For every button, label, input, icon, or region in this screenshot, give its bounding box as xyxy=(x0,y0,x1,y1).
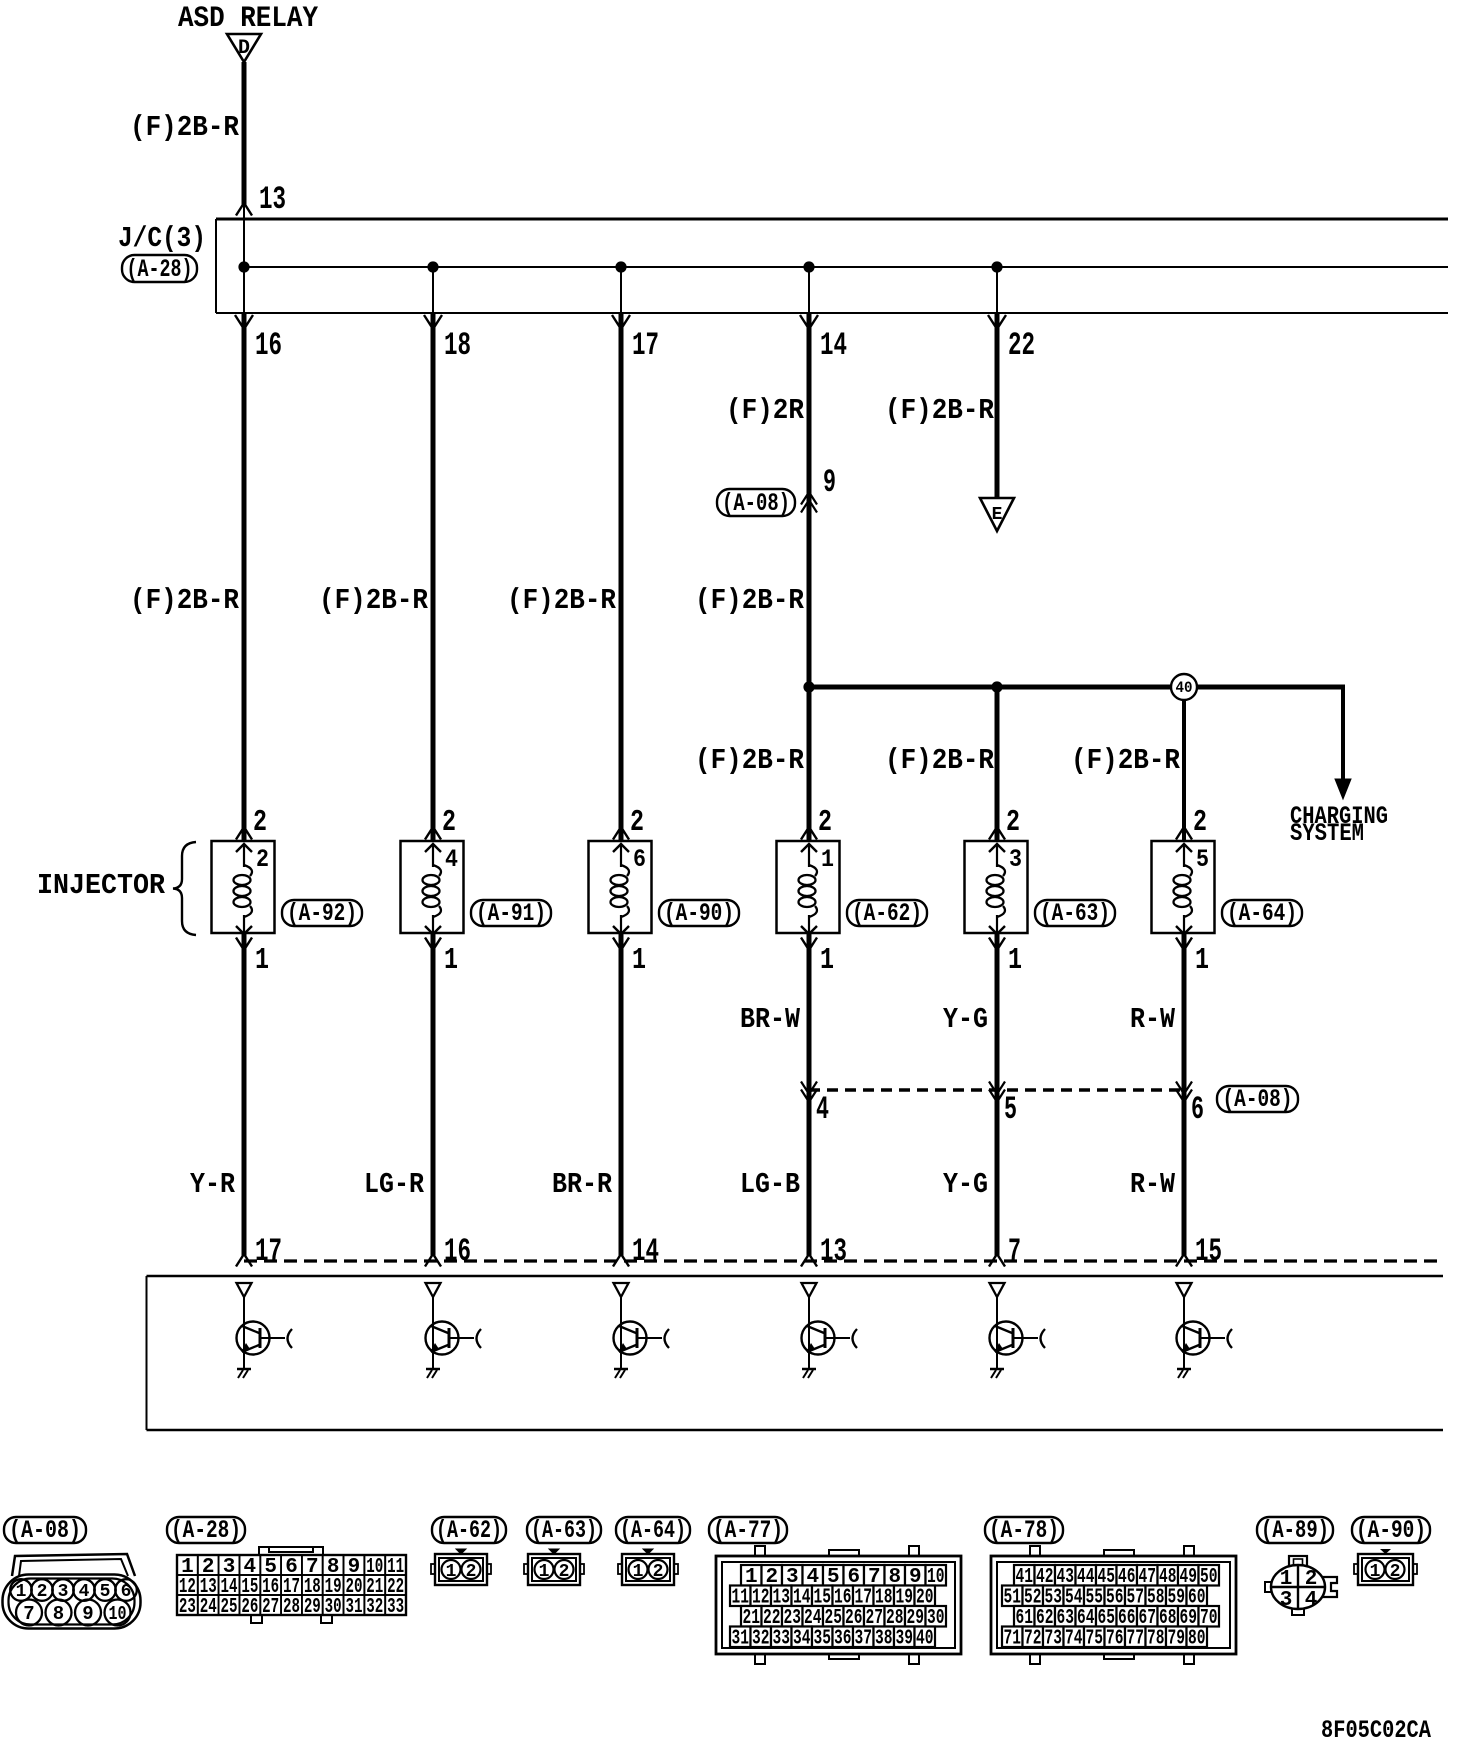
svg-text:75: 75 xyxy=(1086,1628,1104,1651)
ECU pin 15 arrow xyxy=(1176,1254,1192,1267)
injector 6 label (A-64) xyxy=(1222,900,1302,926)
in-line connector A-08 dashed line xyxy=(809,1088,1184,1091)
svg-text:2: 2 xyxy=(559,1562,570,1582)
ECU connector dashed boundary xyxy=(244,1259,1443,1262)
injector 4 pin 1 arrow xyxy=(801,938,817,951)
wire inside J/C xyxy=(620,267,622,313)
connector A-08 face view xyxy=(12,1554,135,1576)
J/C output arrow pin 18 xyxy=(424,315,442,329)
svg-text:2: 2 xyxy=(466,1562,477,1582)
svg-text:(A-64): (A-64) xyxy=(620,1516,686,1545)
wire below injector 5 xyxy=(995,933,1000,1256)
svg-text:73: 73 xyxy=(1045,1628,1063,1651)
connector A-89 face view xyxy=(1289,1556,1307,1567)
svg-text:80: 80 xyxy=(1188,1628,1206,1651)
svg-text:INJECTOR: INJECTOR xyxy=(37,869,166,902)
wire inside J/C xyxy=(243,267,245,313)
wire below injector 4 xyxy=(807,933,812,1256)
injector 3 label (A-90) xyxy=(659,900,739,926)
injector 5 coil xyxy=(996,844,998,867)
svg-text:(A-90): (A-90) xyxy=(1356,1516,1426,1545)
svg-text:(A-28): (A-28) xyxy=(171,1516,241,1545)
svg-text:SYSTEM: SYSTEM xyxy=(1290,819,1364,848)
svg-text:2: 2 xyxy=(1305,1568,1318,1591)
connector A-63 face view xyxy=(549,1549,559,1554)
driver transistor Q4 xyxy=(808,1297,810,1369)
svg-text:BR-W: BR-W xyxy=(740,1003,801,1036)
svg-text:ASD RELAY: ASD RELAY xyxy=(178,2,318,36)
svg-text:(A-77): (A-77) xyxy=(713,1516,783,1545)
svg-text:72: 72 xyxy=(1024,1628,1042,1651)
svg-text:2: 2 xyxy=(1193,805,1207,840)
driver transistor Q1 xyxy=(243,1297,245,1369)
connector A-64 face view xyxy=(643,1549,653,1554)
wire down to injector A-64 xyxy=(1182,700,1186,840)
in-line connector circle 40 xyxy=(1171,674,1197,700)
svg-text:33: 33 xyxy=(387,1596,404,1619)
injector 4 body (A-62) xyxy=(777,841,840,933)
branch bus to charging system xyxy=(809,685,1345,690)
svg-text:(F)2B-R: (F)2B-R xyxy=(695,744,805,777)
J/C node dot 4 xyxy=(803,261,814,272)
A-08 pin 9 xyxy=(75,1600,101,1626)
svg-text:8F05C02CA: 8F05C02CA xyxy=(1321,1716,1431,1740)
ground triangle E xyxy=(980,498,1014,531)
connector label A-90 xyxy=(1352,1517,1430,1543)
J/C output arrow pin 17 xyxy=(612,315,630,329)
svg-text:25: 25 xyxy=(221,1596,238,1619)
injector 2 coil xyxy=(432,844,434,867)
svg-text:4: 4 xyxy=(1305,1589,1318,1612)
svg-text:(F)2B-R: (F)2B-R xyxy=(130,111,240,144)
transistor 2 ground xyxy=(426,1368,440,1371)
svg-text:2: 2 xyxy=(1390,1562,1401,1582)
svg-text:7: 7 xyxy=(23,1603,34,1625)
svg-text:(A-64): (A-64) xyxy=(1227,899,1297,928)
svg-text:14: 14 xyxy=(632,1233,659,1270)
svg-text:(F)2B-R: (F)2B-R xyxy=(130,584,240,617)
connector A-90 face view xyxy=(1380,1549,1391,1554)
svg-text:(F)2B-R: (F)2B-R xyxy=(1071,744,1181,777)
svg-text:R-W: R-W xyxy=(1130,1003,1176,1036)
svg-text:Y-R: Y-R xyxy=(190,1168,236,1201)
svg-text:Y-G: Y-G xyxy=(943,1168,988,1201)
connector label A-63 xyxy=(527,1517,601,1543)
transistor 4 ground xyxy=(802,1368,816,1371)
svg-text:32: 32 xyxy=(366,1596,383,1619)
wire inside J/C xyxy=(996,267,998,313)
svg-text:37: 37 xyxy=(855,1628,873,1651)
connector label A-08 xyxy=(4,1517,86,1543)
transistor 3 ground xyxy=(614,1368,628,1371)
svg-text:1: 1 xyxy=(821,845,834,874)
svg-text:(F)2B-R: (F)2B-R xyxy=(885,744,995,777)
junction dot at wire 14 xyxy=(803,681,814,692)
J/C output arrow pin 16 xyxy=(235,315,253,329)
ECU internal pin triangle 5 xyxy=(990,1283,1005,1297)
wire 18 (F)2B-R xyxy=(431,314,436,840)
svg-text:J/C(3): J/C(3) xyxy=(118,222,206,255)
connector A-62 face view xyxy=(456,1549,466,1554)
A-08 pin 8 xyxy=(46,1600,72,1626)
svg-text:2: 2 xyxy=(653,1562,664,1582)
svg-text:(A-78): (A-78) xyxy=(989,1516,1059,1545)
A-08 pin 1 xyxy=(10,1579,32,1601)
injector 4 label (A-62) xyxy=(847,900,927,926)
svg-text:27: 27 xyxy=(262,1596,279,1619)
svg-text:14: 14 xyxy=(820,327,847,364)
connector A-78 face view xyxy=(991,1556,1236,1654)
A-08 pass pin 6 xyxy=(1176,1082,1192,1095)
J/C node dot 2 xyxy=(427,261,438,272)
svg-text:15: 15 xyxy=(1195,1233,1222,1270)
A-08 pin 6 xyxy=(115,1579,137,1601)
A-08 pass pin 4 xyxy=(801,1082,817,1095)
ECU pin 14 arrow xyxy=(613,1254,629,1267)
injector 6 body (A-64) xyxy=(1152,841,1215,933)
wire 17 (F)2B-R xyxy=(619,314,624,840)
svg-text:(A-63): (A-63) xyxy=(1040,899,1110,928)
svg-text:7: 7 xyxy=(1008,1233,1021,1270)
svg-text:71: 71 xyxy=(1004,1628,1022,1651)
svg-text:8: 8 xyxy=(53,1603,64,1625)
A-08 pin 4 xyxy=(73,1579,95,1601)
A-08 pass pin 5 xyxy=(989,1082,1005,1095)
svg-text:LG-B: LG-B xyxy=(740,1168,800,1201)
ECU internal pin triangle 6 xyxy=(1177,1283,1192,1297)
svg-text:74: 74 xyxy=(1065,1628,1083,1651)
svg-text:9: 9 xyxy=(823,464,836,501)
connector A-08 label xyxy=(1217,1086,1298,1112)
injector 5 body (A-63) xyxy=(965,841,1028,933)
injector 4 coil xyxy=(808,844,810,867)
svg-text:(F)2B-R: (F)2B-R xyxy=(319,584,429,617)
svg-text:29: 29 xyxy=(304,1596,321,1619)
svg-text:9: 9 xyxy=(82,1603,93,1625)
injector 5 pin 1 arrow xyxy=(989,938,1005,951)
brace xyxy=(173,842,196,935)
svg-text:38: 38 xyxy=(875,1628,893,1651)
svg-text:(F)2B-R: (F)2B-R xyxy=(885,394,995,427)
svg-text:24: 24 xyxy=(200,1596,217,1619)
svg-text:1: 1 xyxy=(444,943,458,978)
svg-text:16: 16 xyxy=(444,1233,471,1270)
svg-text:(A-63): (A-63) xyxy=(531,1516,597,1545)
junction dot branch 2 xyxy=(991,681,1002,692)
svg-text:1: 1 xyxy=(255,943,269,978)
connector A-08 pass-through pin 9 xyxy=(717,489,795,516)
J/C internal bus xyxy=(244,266,1448,268)
ECU pin 16 arrow xyxy=(425,1254,441,1267)
svg-text:6: 6 xyxy=(633,845,646,874)
connector A-28 face view xyxy=(259,1547,323,1556)
injector 1 pin 1 arrow xyxy=(236,938,252,951)
svg-text:1: 1 xyxy=(539,1562,550,1582)
wire 16 (F)2B-R xyxy=(242,314,247,840)
connector label A-77 xyxy=(709,1517,787,1543)
transistor 5 ground xyxy=(990,1368,1004,1371)
svg-text:(A-89): (A-89) xyxy=(1261,1516,1329,1545)
transistor 6 ground xyxy=(1177,1368,1191,1371)
wire 14 (F)2R xyxy=(807,314,812,840)
wire below injector 2 xyxy=(431,933,436,1256)
transistor 1 ground xyxy=(237,1368,251,1371)
svg-text:1: 1 xyxy=(1280,1568,1293,1591)
svg-text:28: 28 xyxy=(283,1596,300,1619)
injector 3 body (A-90) xyxy=(589,841,652,933)
A-08 pin 5 xyxy=(94,1579,116,1601)
injector 1 label (A-92) xyxy=(282,900,362,926)
svg-text:23: 23 xyxy=(179,1596,196,1619)
connector A-77 face view xyxy=(716,1556,961,1654)
J/C output arrow pin 14 xyxy=(800,315,818,329)
svg-text:(A-28): (A-28) xyxy=(127,255,193,284)
connector label A-78 xyxy=(985,1517,1063,1543)
svg-text:(F)2R: (F)2R xyxy=(726,394,805,427)
A-08 pin 10 xyxy=(105,1600,131,1626)
wire below injector 1 xyxy=(242,933,247,1256)
svg-text:5: 5 xyxy=(1004,1091,1017,1128)
svg-text:32: 32 xyxy=(752,1628,770,1651)
svg-text:(A-91): (A-91) xyxy=(476,899,546,928)
connector label A-89 xyxy=(1257,1517,1333,1543)
svg-text:77: 77 xyxy=(1127,1628,1145,1651)
relay terminal triangle D xyxy=(227,34,261,62)
J/C node dot 1 xyxy=(238,261,249,272)
svg-text:31: 31 xyxy=(345,1596,362,1619)
svg-text:(F)2B-R: (F)2B-R xyxy=(507,584,617,617)
ECU pin 7 arrow xyxy=(989,1254,1005,1267)
injector 3 pin 1 arrow xyxy=(613,938,629,951)
arrow into J/C xyxy=(236,203,252,216)
svg-text:3: 3 xyxy=(1009,845,1022,874)
svg-text:(A-92): (A-92) xyxy=(287,899,357,928)
svg-text:(F)2B-R: (F)2B-R xyxy=(695,584,805,617)
svg-text:35: 35 xyxy=(814,1628,832,1651)
driver transistor Q3 xyxy=(620,1297,622,1369)
connector label A-62 xyxy=(432,1517,506,1543)
svg-text:79: 79 xyxy=(1168,1628,1186,1651)
svg-text:1: 1 xyxy=(632,943,646,978)
wire 22 (F)2B-R xyxy=(995,314,1000,498)
ECU internal pin triangle 1 xyxy=(237,1283,252,1297)
svg-text:22: 22 xyxy=(1008,327,1035,364)
svg-text:1: 1 xyxy=(446,1562,457,1582)
svg-text:Y-G: Y-G xyxy=(943,1003,988,1036)
wire down to injector A-63 xyxy=(995,687,1000,840)
svg-text:1: 1 xyxy=(820,943,834,978)
svg-text:34: 34 xyxy=(793,1628,811,1651)
injector 1 body (A-92) xyxy=(212,841,275,933)
svg-text:1: 1 xyxy=(1370,1562,1381,1582)
injector 2 label (A-91) xyxy=(471,900,551,926)
svg-text:BR-R: BR-R xyxy=(552,1168,613,1201)
J/C node dot 5 xyxy=(991,261,1002,272)
J/C node dot 3 xyxy=(615,261,626,272)
injector 2 body (A-91) xyxy=(401,841,464,933)
svg-text:39: 39 xyxy=(896,1628,914,1651)
svg-text:2: 2 xyxy=(818,805,832,840)
svg-text:5: 5 xyxy=(100,1582,111,1602)
injector 6 pin 1 arrow xyxy=(1176,938,1192,951)
injector 2 pin 1 arrow xyxy=(425,938,441,951)
svg-text:6: 6 xyxy=(121,1582,132,1602)
svg-text:R-W: R-W xyxy=(1130,1168,1176,1201)
svg-text:40: 40 xyxy=(916,1628,934,1651)
connector label A-64 xyxy=(616,1517,690,1543)
wire to charging system with arrow xyxy=(1341,687,1345,780)
connector label A-28 xyxy=(167,1517,245,1543)
svg-text:2: 2 xyxy=(256,845,269,874)
svg-text:2: 2 xyxy=(442,805,456,840)
svg-text:17: 17 xyxy=(255,1233,282,1270)
svg-text:(A-08): (A-08) xyxy=(722,489,790,518)
driver transistor Q2 xyxy=(432,1297,434,1369)
wire 13 inside J/C xyxy=(243,206,245,267)
svg-text:2: 2 xyxy=(37,1582,48,1602)
svg-text:16: 16 xyxy=(255,327,282,364)
wire inside J/C xyxy=(808,267,810,313)
A-08 pin 7 xyxy=(16,1600,42,1626)
injector 6 coil xyxy=(1183,844,1185,867)
ECU internal pin triangle 3 xyxy=(614,1283,629,1297)
svg-text:10: 10 xyxy=(109,1603,127,1625)
A-08 pin 3 xyxy=(52,1579,74,1601)
svg-text:D: D xyxy=(238,37,250,60)
svg-text:4: 4 xyxy=(816,1091,829,1128)
svg-text:13: 13 xyxy=(820,1233,847,1270)
ECU box (engine control module) xyxy=(147,1275,1444,1278)
injector 5 label (A-63) xyxy=(1035,900,1115,926)
svg-text:2: 2 xyxy=(1006,805,1020,840)
ECU pin 17 arrow xyxy=(236,1254,252,1267)
driver transistor Q6 xyxy=(1183,1297,1185,1369)
svg-text:E: E xyxy=(992,505,1003,525)
svg-text:(A-62): (A-62) xyxy=(436,1516,502,1545)
svg-text:(A-08): (A-08) xyxy=(9,1516,81,1545)
J/C output arrow pin 22 xyxy=(988,315,1006,329)
svg-text:31: 31 xyxy=(732,1628,750,1651)
svg-text:33: 33 xyxy=(773,1628,791,1651)
svg-text:1: 1 xyxy=(1008,943,1022,978)
wire from ASD relay, (F)2B-R xyxy=(242,62,247,206)
injector 1 coil xyxy=(243,844,245,867)
svg-text:LG-R: LG-R xyxy=(364,1168,425,1201)
svg-text:(A-90): (A-90) xyxy=(664,899,734,928)
svg-text:5: 5 xyxy=(1196,845,1209,874)
svg-text:18: 18 xyxy=(444,327,471,364)
wire below injector 6 xyxy=(1182,933,1187,1256)
svg-text:2: 2 xyxy=(630,805,644,840)
svg-text:1: 1 xyxy=(633,1562,644,1582)
ECU internal pin triangle 4 xyxy=(802,1283,817,1297)
svg-text:76: 76 xyxy=(1106,1628,1124,1651)
svg-text:13: 13 xyxy=(259,181,286,218)
svg-text:6: 6 xyxy=(1191,1091,1204,1128)
A-08 pin 2 xyxy=(31,1579,53,1601)
ECU pin 13 arrow xyxy=(801,1254,817,1267)
injector 3 coil xyxy=(620,844,622,867)
svg-text:(A-08): (A-08) xyxy=(1223,1085,1293,1114)
svg-text:78: 78 xyxy=(1147,1628,1165,1651)
wire below injector 3 xyxy=(619,933,624,1256)
driver transistor Q5 xyxy=(996,1297,998,1369)
svg-text:1: 1 xyxy=(1195,943,1209,978)
svg-text:17: 17 xyxy=(632,327,659,364)
svg-text:4: 4 xyxy=(445,845,458,874)
svg-text:2: 2 xyxy=(253,805,267,840)
svg-text:36: 36 xyxy=(834,1628,852,1651)
svg-text:(A-62): (A-62) xyxy=(852,899,922,928)
ECU internal pin triangle 2 xyxy=(426,1283,441,1297)
svg-text:40: 40 xyxy=(1176,679,1193,697)
wire inside J/C xyxy=(432,267,434,313)
svg-text:3: 3 xyxy=(1280,1589,1293,1612)
